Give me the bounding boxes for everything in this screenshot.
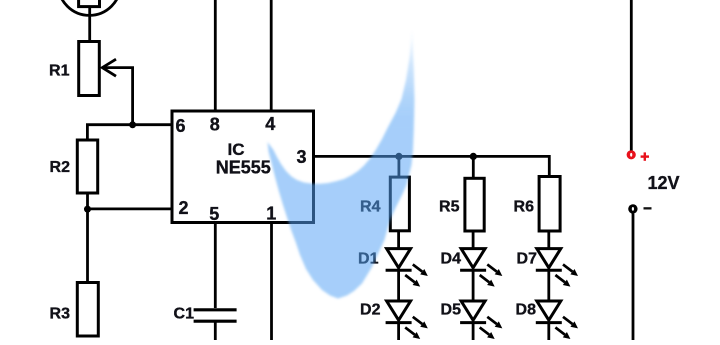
svg-text:4: 4 (265, 114, 275, 134)
svg-text:R2: R2 (50, 159, 71, 176)
svg-text:3: 3 (296, 147, 306, 167)
svg-text:6: 6 (176, 116, 186, 136)
svg-text:1: 1 (266, 204, 276, 224)
svg-text:D8: D8 (516, 302, 537, 319)
svg-text:D7: D7 (517, 251, 538, 268)
svg-text:IC: IC (228, 140, 245, 159)
svg-text:D4: D4 (441, 251, 462, 268)
svg-text:R5: R5 (439, 199, 460, 216)
svg-text:C1: C1 (174, 306, 195, 323)
svg-text:R3: R3 (50, 306, 71, 323)
svg-text:5: 5 (209, 204, 219, 224)
svg-text:D2: D2 (360, 302, 381, 319)
svg-text:D5: D5 (441, 302, 462, 319)
svg-text:R1: R1 (49, 63, 70, 80)
svg-text:2: 2 (179, 198, 189, 218)
svg-text:NE555: NE555 (216, 158, 271, 178)
svg-text:R6: R6 (514, 199, 535, 216)
svg-text:8: 8 (210, 115, 220, 135)
svg-text:12V: 12V (648, 173, 680, 193)
